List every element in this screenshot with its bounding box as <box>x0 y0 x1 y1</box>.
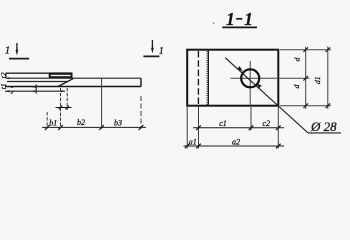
weld hook at right end of upper plate <box>72 78 73 80</box>
serration teeth <box>207 52 209 105</box>
arrow on plate bottom near left end <box>9 86 13 88</box>
leader line through hole <box>225 58 308 133</box>
tick c1/c2 <box>249 126 254 131</box>
section mark right: label 1 <box>159 46 164 57</box>
svg-text:d: d <box>293 58 302 62</box>
extension line top of upper plate <box>6 72 49 74</box>
upper plate (thickness t2), seen edge-on <box>49 72 73 78</box>
ticks on d/d1 lines <box>303 47 330 108</box>
section mark left: cutting arrow <box>9 43 29 59</box>
svg-text:b1: b1 <box>49 119 57 128</box>
svg-text:d: d <box>292 84 301 88</box>
leader arrow upper <box>237 66 243 72</box>
svg-text:d1: d1 <box>313 76 322 84</box>
speck near title <box>213 22 215 24</box>
tick a2 right <box>276 144 281 149</box>
staggered extension vertical <box>35 84 37 93</box>
extension line for b1 left <box>46 112 48 129</box>
c dimension line <box>193 127 284 129</box>
hole centre line vertical <box>249 61 251 106</box>
main plate right end edge <box>140 78 142 86</box>
svg-text:c2: c2 <box>262 119 270 128</box>
tick b1 left <box>45 125 50 130</box>
arrow at left end of plate top line <box>6 77 10 79</box>
svg-text:c1: c1 <box>219 119 227 128</box>
weld bevel diagonal <box>58 79 73 87</box>
svg-text:t2: t2 <box>0 72 8 78</box>
svg-text:b3: b3 <box>114 119 122 128</box>
right-pointing arrow at right end of lower line <box>61 90 65 92</box>
inner d dimension line <box>305 47 307 110</box>
svg-text:t1: t1 <box>0 83 8 89</box>
tick c1 left <box>196 126 201 131</box>
extension below dashed edge <box>198 106 200 149</box>
lower strip top edge <box>7 81 69 83</box>
main plate bottom edge <box>5 86 141 88</box>
main plate top edge <box>6 77 141 79</box>
serrated weld edge line <box>207 51 209 105</box>
section mark left: label 1 <box>5 45 11 57</box>
small tick near left end of lower line <box>11 91 13 94</box>
plate outline (section) <box>187 50 278 106</box>
b dimension line <box>42 126 146 128</box>
tick a1 left <box>185 144 190 149</box>
hole circle <box>241 69 259 87</box>
svg-text:a2: a2 <box>232 137 240 146</box>
extension line b2/b3 boundary <box>101 79 103 129</box>
title underline <box>222 26 257 28</box>
svg-text:1: 1 <box>5 45 11 57</box>
bottom edge extension to d dims <box>280 105 331 107</box>
extension below right edge <box>277 107 279 149</box>
weld length extension line b <box>66 88 68 110</box>
hole centre line horizontal <box>231 77 310 79</box>
right-pointing arrow at staggered extension on lower line <box>33 90 37 92</box>
small weld dimension line <box>56 106 72 110</box>
extension below hole centre <box>250 107 252 130</box>
lower strip bottom edge / chained dimension line <box>5 90 65 92</box>
svg-text:1: 1 <box>244 9 253 29</box>
extension line b3 right <box>140 96 142 129</box>
svg-text:b2: b2 <box>77 118 85 127</box>
svg-text:1: 1 <box>159 46 164 57</box>
section mark right: cutting arrow <box>143 40 159 56</box>
top edge extension to d dims <box>280 49 331 51</box>
svg-text:1: 1 <box>226 9 235 29</box>
svg-text:a1: a1 <box>189 137 197 146</box>
hidden edge (dashed line) <box>197 51 199 105</box>
tick b3 right <box>139 125 144 130</box>
tick c2 right <box>276 126 281 131</box>
tick a1/a2 <box>196 144 201 149</box>
a dimension line <box>184 145 285 147</box>
leader arrow lower <box>256 83 262 88</box>
extension below left edge <box>186 107 188 149</box>
leader horizontal shelf <box>308 132 341 134</box>
tick b2/b3 <box>99 125 104 130</box>
tick b1/b2 <box>58 125 63 130</box>
outer d1 dimension line <box>327 47 329 110</box>
arrow on plate bottom at staggered extension <box>31 86 36 88</box>
t-dimension stub line <box>5 73 7 79</box>
arrow at left end of lower line <box>5 90 9 92</box>
weld length extension line a <box>60 88 62 129</box>
svg-text:Ø 28: Ø 28 <box>310 119 337 134</box>
